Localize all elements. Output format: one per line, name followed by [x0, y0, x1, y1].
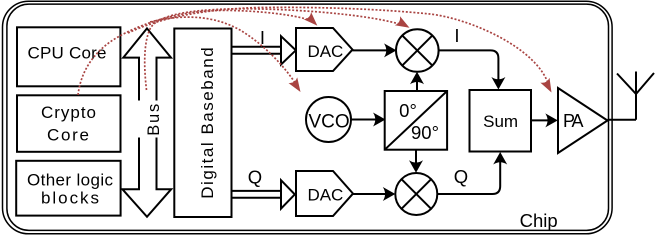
- svg-text:Q: Q: [454, 166, 468, 187]
- block Other logic blocks: [16, 161, 120, 216]
- Q bus wire (baseband to DAC): [232, 191, 282, 198]
- Q bus open arrowhead: [281, 180, 295, 208]
- red leakage arc: bus to mixer I: [145, 9, 403, 90]
- svg-text:CPU Core: CPU Core: [28, 44, 107, 63]
- digital baseband block: [174, 29, 231, 218]
- mixer I: [396, 29, 439, 72]
- svg-text:Crypto: Crypto: [41, 103, 96, 122]
- phase splitter 0/90: [385, 91, 447, 150]
- block CPU Core: [17, 27, 120, 86]
- summer: [470, 90, 532, 152]
- svg-text:DAC: DAC: [307, 42, 343, 61]
- svg-text:Other logic: Other logic: [27, 171, 114, 190]
- arrowhead into summer top: [491, 77, 505, 90]
- DAC Q converter: [296, 171, 353, 216]
- svg-text:I: I: [454, 25, 459, 46]
- arrowhead into mixer I: [384, 43, 397, 57]
- svg-text:Core: Core: [47, 126, 89, 145]
- wire DAC Q to mixer Q: [353, 193, 387, 195]
- svg-text:VCO: VCO: [309, 112, 350, 133]
- bus arrow: [122, 28, 171, 216]
- arrowhead down into mixer Q: [409, 160, 423, 173]
- I bus open arrowhead: [281, 36, 296, 64]
- red arrowhead at PA: [540, 78, 556, 95]
- mixer Q: [395, 173, 437, 215]
- svg-text:0°: 0°: [399, 100, 417, 121]
- red leakage arc: to VCO: [150, 17, 297, 86]
- svg-text:PA: PA: [563, 111, 584, 131]
- wire PA to antenna: [608, 119, 637, 121]
- svg-text:90°: 90°: [411, 122, 439, 143]
- wire VCO to phase splitter: [351, 119, 378, 121]
- red leakage arc: to PA: [128, 7, 549, 86]
- I bus wire (baseband to DAC): [232, 47, 282, 54]
- wire summer to PA: [531, 119, 550, 121]
- svg-text:Q: Q: [248, 167, 262, 188]
- red arrowhead at mixer I: [395, 16, 412, 32]
- DAC I converter: [296, 28, 353, 71]
- wire mixer I to summer (I): [439, 50, 499, 81]
- bus label: [138, 101, 163, 138]
- arrowhead into mixer Q: [383, 187, 396, 201]
- svg-text:Chip: Chip: [520, 210, 558, 231]
- red arrowhead at DAC I: [304, 12, 321, 29]
- svg-text:DAC: DAC: [307, 185, 343, 204]
- svg-text:Bus: Bus: [145, 104, 163, 136]
- red leakage arc: crypto core to DAC I: [78, 10, 311, 95]
- arrowhead into phase splitter: [373, 113, 386, 127]
- red arrowhead at VCO: [289, 77, 305, 94]
- svg-text:Sum: Sum: [483, 112, 518, 131]
- wire splitter to mixer I (up): [416, 80, 418, 91]
- PA amplifier: [558, 88, 608, 153]
- svg-text:blocks: blocks: [41, 189, 99, 208]
- block Crypto Core: [17, 95, 121, 152]
- wire mixer Q to summer (Q): [437, 160, 500, 194]
- arrowhead into PA: [545, 113, 558, 127]
- arrowhead into summer bottom: [493, 152, 507, 165]
- VCO: [306, 97, 351, 142]
- arrowhead up into mixer I: [410, 72, 424, 85]
- antenna: [617, 72, 654, 120]
- wire splitter to mixer Q (down): [415, 150, 417, 165]
- wire DAC I to mixer I: [353, 49, 389, 51]
